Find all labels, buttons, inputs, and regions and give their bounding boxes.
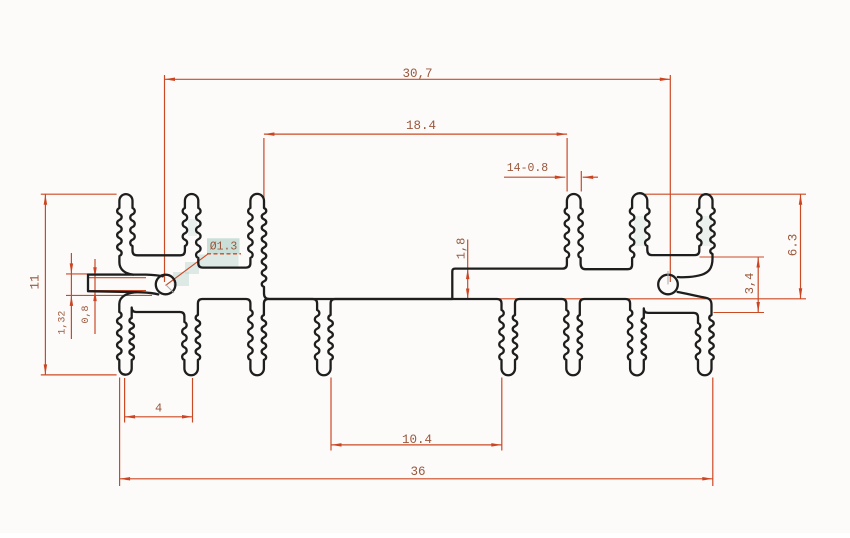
svg-text:18.4: 18.4 xyxy=(406,119,436,133)
svg-text:1,32: 1,32 xyxy=(57,311,68,335)
svg-text:3,4: 3,4 xyxy=(743,273,757,295)
svg-text:14-0.8: 14-0.8 xyxy=(507,162,549,175)
svg-text:30,7: 30,7 xyxy=(402,67,432,81)
svg-text:4: 4 xyxy=(155,401,162,415)
svg-text:36: 36 xyxy=(410,465,425,479)
svg-text:10.4: 10.4 xyxy=(402,433,432,447)
svg-text:11: 11 xyxy=(28,274,42,289)
svg-text:0,8: 0,8 xyxy=(81,305,92,323)
svg-text:6.3: 6.3 xyxy=(786,234,800,257)
svg-text:Ø1.3: Ø1.3 xyxy=(210,241,238,254)
svg-text:1,8: 1,8 xyxy=(455,238,469,260)
